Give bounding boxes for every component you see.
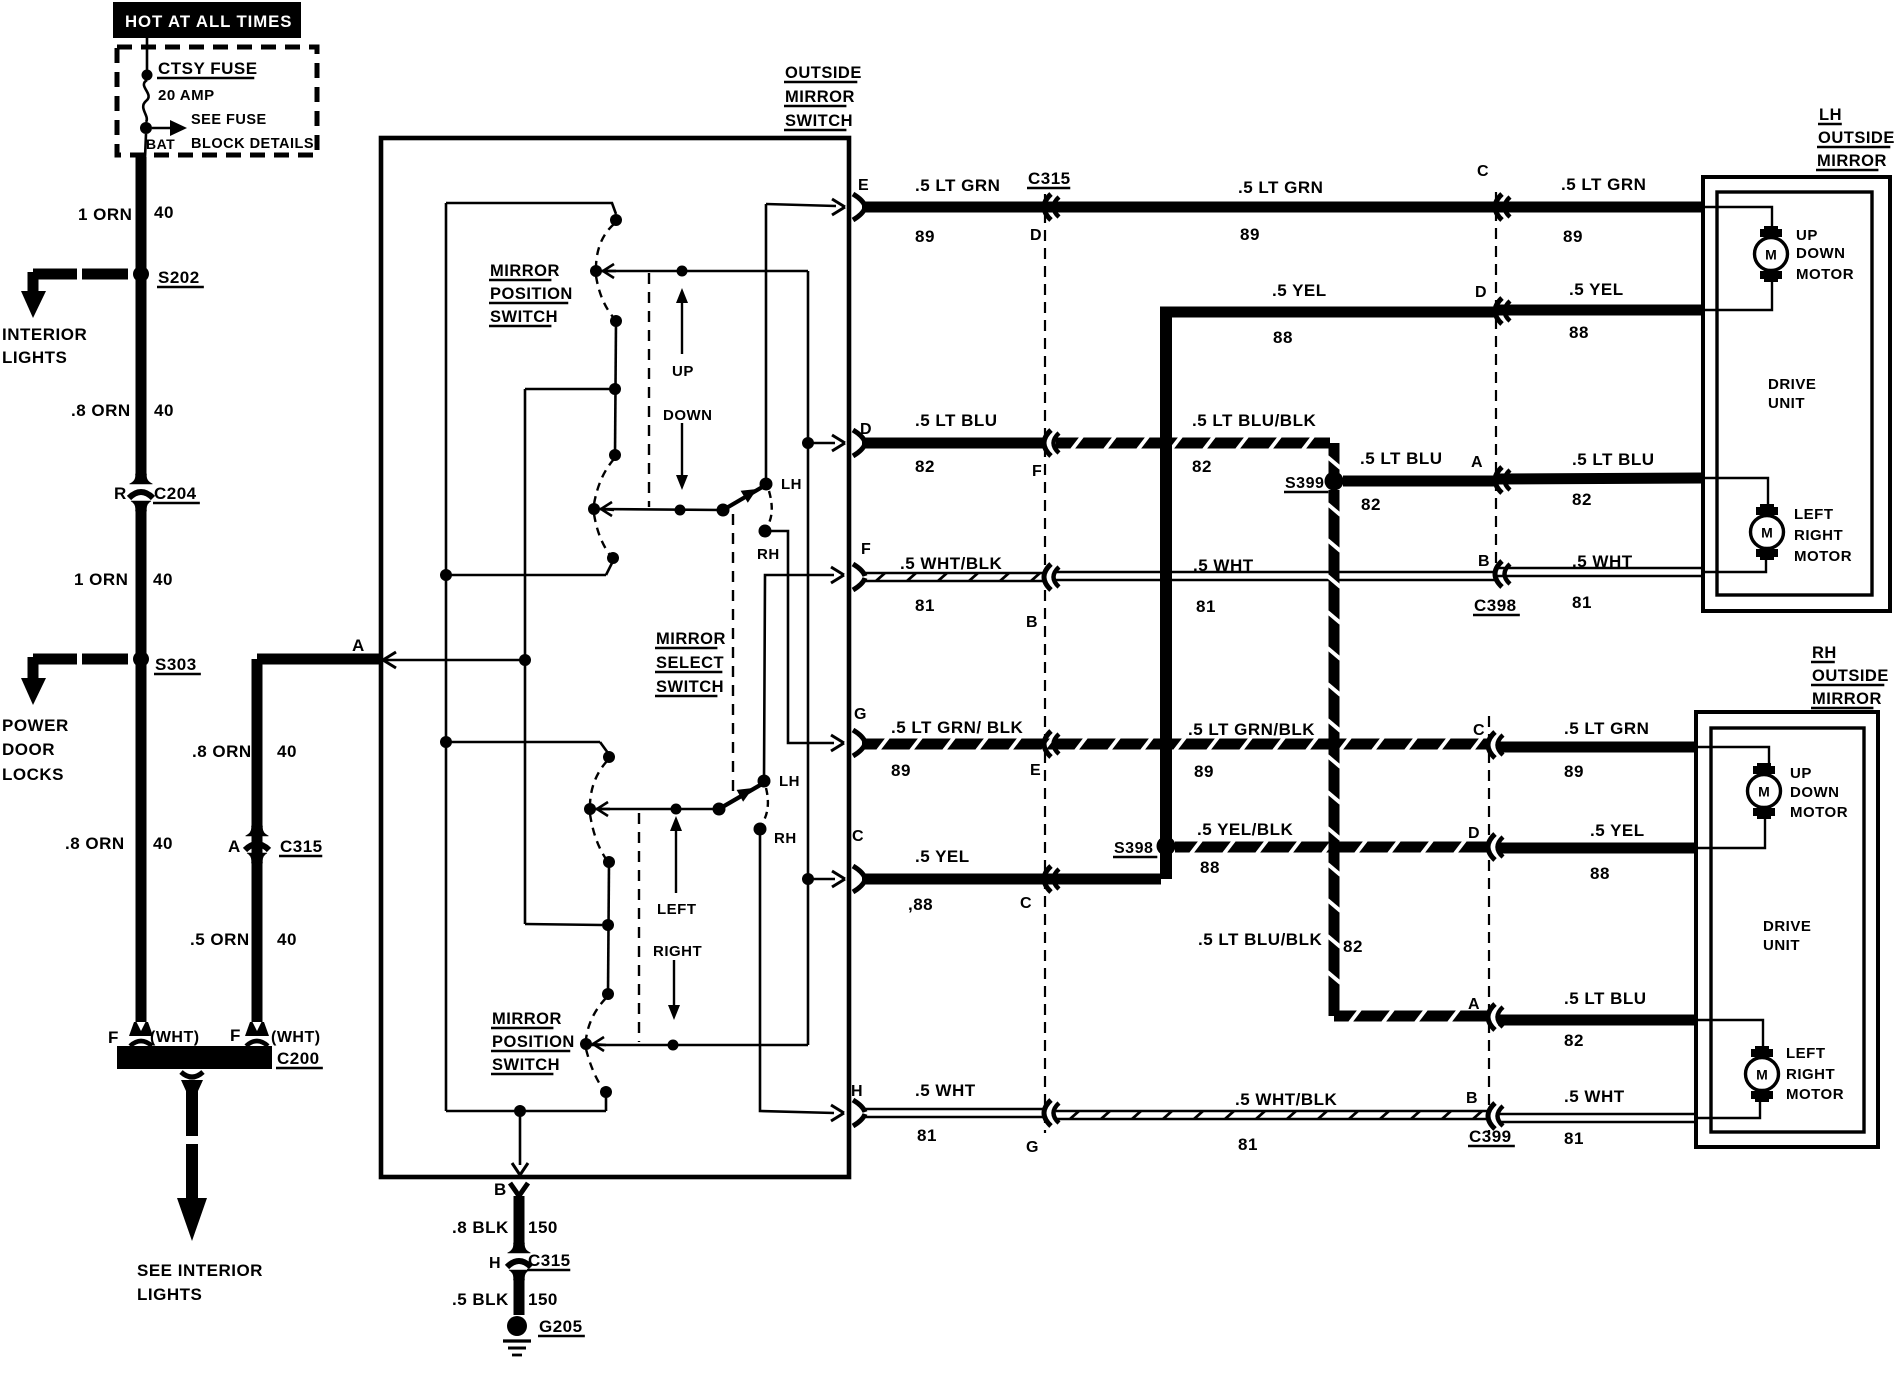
node D junction <box>802 437 814 449</box>
RH left right motor M4 <box>1751 1049 1773 1057</box>
splice S303 <box>133 651 149 667</box>
svg-text:81: 81 <box>1572 593 1592 612</box>
svg-text:B: B <box>1026 614 1038 631</box>
svg-text:(WHT): (WHT) <box>271 1029 321 1046</box>
svg-text:1 ORN: 1 ORN <box>78 205 132 224</box>
svg-text:E: E <box>858 177 869 194</box>
wire BLU to motor <box>1698 1020 1763 1047</box>
svg-text:40: 40 <box>277 742 297 761</box>
splice S398 <box>1157 837 1176 856</box>
node T2b <box>603 856 615 868</box>
svg-text:.8 BLK: .8 BLK <box>452 1218 509 1237</box>
node BAT output wire <box>145 134 146 158</box>
svg-text:C200: C200 <box>277 1049 320 1068</box>
svg-text:UP: UP <box>1790 765 1812 782</box>
svg-text:LH: LH <box>781 476 802 493</box>
svg-text:20 AMP: 20 AMP <box>158 87 215 104</box>
svg-text:SEE FUSE: SEE FUSE <box>191 112 267 128</box>
svg-text:LEFT: LEFT <box>1786 1045 1826 1062</box>
wire to contact T1 <box>446 203 616 214</box>
svg-text:(WHT): (WHT) <box>150 1029 200 1046</box>
svg-text:40: 40 <box>277 930 297 949</box>
svg-text:A: A <box>1468 996 1480 1013</box>
wire corner down to S399 <box>1329 443 1340 474</box>
svg-text:.5 LT BLU: .5 LT BLU <box>1572 450 1655 469</box>
svg-text:POWER: POWER <box>2 716 69 735</box>
svg-text:UP: UP <box>1796 227 1818 244</box>
svg-text:40: 40 <box>154 401 174 420</box>
svg-text:A: A <box>352 636 365 655</box>
LH left right motor M2 <box>1756 507 1778 515</box>
row S398 to C399 D: .5 YEL/BLK <box>1175 842 1489 853</box>
node C junction <box>802 873 814 885</box>
svg-text:81: 81 <box>1196 597 1216 616</box>
svg-text:.5 WHT/BLK: .5 WHT/BLK <box>1235 1090 1337 1109</box>
svg-text:.8 ORN: .8 ORN <box>71 401 131 420</box>
svg-text:C: C <box>852 828 864 845</box>
svg-text:MIRROR: MIRROR <box>1812 690 1882 708</box>
wiper W1 with arrow (up/down) <box>590 265 602 277</box>
node T2 <box>610 315 622 327</box>
wire WHT to motor <box>1705 559 1766 572</box>
svg-text:HOT AT ALL TIMES: HOT AT ALL TIMES <box>125 12 292 31</box>
node LH (upper) <box>760 478 773 491</box>
svg-text:.5 LT BLU: .5 LT BLU <box>1564 989 1647 1008</box>
row D: .5 LT BLU / LT BLU BLK to S399 <box>853 430 865 442</box>
svg-text:SWITCH: SWITCH <box>785 112 853 130</box>
svg-text:SWITCH: SWITCH <box>656 678 724 696</box>
wire RH lower to pin H <box>760 835 834 1113</box>
svg-text:C315: C315 <box>280 837 323 856</box>
svg-text:MOTOR: MOTOR <box>1786 1086 1844 1103</box>
svg-text:C: C <box>1477 163 1489 180</box>
svg-text:DRIVE: DRIVE <box>1763 918 1811 935</box>
svg-text:C: C <box>1473 722 1485 739</box>
svg-text:MOTOR: MOTOR <box>1796 266 1854 283</box>
wire .5 YEL top row to C398 D <box>1160 307 1496 318</box>
svg-text:.5 WHT: .5 WHT <box>1572 552 1633 571</box>
svg-text:DRIVE: DRIVE <box>1768 376 1816 393</box>
svg-text:G: G <box>854 706 867 723</box>
svg-text:LIGHTS: LIGHTS <box>137 1285 202 1304</box>
wire from header to fuse <box>146 38 149 75</box>
svg-text:81: 81 <box>1238 1135 1258 1154</box>
svg-text:C: C <box>1020 895 1032 912</box>
svg-text:.5 BLK: .5 BLK <box>452 1290 509 1309</box>
svg-text:POSITION: POSITION <box>492 1033 575 1051</box>
dashed arc LH-RH lower <box>763 788 768 822</box>
svg-text:88: 88 <box>1569 323 1589 342</box>
connector C204 pin R <box>130 474 153 484</box>
row C: .5 YEL up to C398 D and S398 <box>853 866 865 878</box>
svg-text:OUTSIDE: OUTSIDE <box>785 64 862 82</box>
svg-text:C204: C204 <box>154 484 197 503</box>
wire branch to power door locks <box>33 654 77 665</box>
svg-text:A: A <box>1471 454 1483 471</box>
svg-text:C315: C315 <box>1028 169 1071 188</box>
svg-text:89: 89 <box>1194 762 1214 781</box>
svg-text:POSITION: POSITION <box>490 285 573 303</box>
svg-text:82: 82 <box>1572 490 1592 509</box>
svg-text:SWITCH: SWITCH <box>492 1056 560 1074</box>
svg-text:.5 WHT/BLK: .5 WHT/BLK <box>900 554 1002 573</box>
svg-text:88: 88 <box>1273 328 1293 347</box>
svg-text:C398: C398 <box>1474 596 1517 615</box>
svg-text:40: 40 <box>153 570 173 589</box>
svg-text:UNIT: UNIT <box>1768 395 1805 412</box>
wire WHT to motor <box>1698 1101 1760 1118</box>
wiper W1b (left/right) <box>584 803 596 815</box>
svg-text:B: B <box>494 1180 507 1199</box>
connector C399 dashed column <box>1488 716 1490 1133</box>
svg-text:DOOR: DOOR <box>2 740 55 759</box>
svg-text:.5 YEL: .5 YEL <box>1569 280 1624 299</box>
wire to pin B with arrow <box>514 1105 526 1117</box>
node RH (lower) <box>754 823 767 836</box>
svg-text:.5 YEL: .5 YEL <box>1272 281 1327 300</box>
connector C200 terminals F (WHT) <box>129 1022 153 1036</box>
svg-text:81: 81 <box>917 1126 937 1145</box>
wire branch to interior lights <box>33 269 77 280</box>
svg-text:.5 WHT: .5 WHT <box>915 1081 976 1100</box>
row E: .5 LT GRN 89 to LH mirror <box>853 194 865 206</box>
svg-text:RH: RH <box>757 546 780 563</box>
wire to contact T1b <box>440 736 452 748</box>
splice S399 <box>1325 472 1344 491</box>
row A to C399: .5 LT BLU <box>1334 1011 1489 1022</box>
svg-text:F: F <box>1032 463 1042 480</box>
RH up down motor M3 <box>1753 766 1775 774</box>
svg-text:.5 WHT: .5 WHT <box>1193 556 1254 575</box>
svg-text:M: M <box>1765 247 1777 263</box>
wire YEL to motor <box>1705 281 1772 310</box>
svg-text:40: 40 <box>153 834 173 853</box>
row H: .5 WHT / .5 WHT/BLK <box>853 1100 865 1112</box>
svg-text:150: 150 <box>528 1290 558 1309</box>
svg-text:SWITCH: SWITCH <box>490 308 558 326</box>
svg-text:B: B <box>1466 1090 1478 1107</box>
svg-text:.5 YEL: .5 YEL <box>915 847 970 866</box>
svg-text:D: D <box>1468 825 1480 842</box>
svg-text:,88: ,88 <box>908 895 933 914</box>
LEFT arrow <box>675 828 677 893</box>
node LH (lower) <box>758 775 771 788</box>
dashed contact arcs lower switch <box>590 761 607 804</box>
wiper W2 (up/down lower) <box>588 503 600 515</box>
svg-text:UP: UP <box>672 363 694 380</box>
svg-text:89: 89 <box>1564 762 1584 781</box>
svg-text:82: 82 <box>915 457 935 476</box>
node T5 <box>607 552 619 564</box>
svg-text:.5 LT BLU/BLK: .5 LT BLU/BLK <box>1198 930 1322 949</box>
svg-text:150: 150 <box>528 1218 558 1237</box>
svg-text:F: F <box>230 1026 241 1045</box>
svg-text:.8 ORN: .8 ORN <box>65 834 125 853</box>
svg-text:.8 ORN: .8 ORN <box>192 742 252 761</box>
svg-text:.5 LT GRN/ BLK: .5 LT GRN/ BLK <box>891 718 1024 737</box>
svg-text:.5 YEL/BLK: .5 YEL/BLK <box>1197 820 1294 839</box>
svg-text:88: 88 <box>1200 858 1220 877</box>
select switch arm (lower) <box>713 803 726 816</box>
node T1 <box>610 214 622 226</box>
wire 1 ORN 40 (fuse to S202) <box>136 157 147 270</box>
svg-text:S202: S202 <box>158 268 200 287</box>
node T4b <box>602 988 614 1000</box>
svg-text:89: 89 <box>1240 225 1260 244</box>
svg-text:89: 89 <box>1563 227 1583 246</box>
svg-text:MOTOR: MOTOR <box>1790 804 1848 821</box>
node T4 <box>609 449 621 461</box>
node T5b <box>600 1086 612 1098</box>
svg-text:.5 LT BLU: .5 LT BLU <box>1360 449 1443 468</box>
power feed: HOT AT ALL TIMES header <box>113 2 301 38</box>
svg-text:D: D <box>1030 227 1042 244</box>
svg-text:LH: LH <box>1819 106 1842 124</box>
svg-text:UNIT: UNIT <box>1763 937 1800 954</box>
svg-text:H: H <box>489 1255 501 1272</box>
svg-text:S399: S399 <box>1285 475 1324 492</box>
svg-text:LOCKS: LOCKS <box>2 765 64 784</box>
svg-text:.5 LT GRN: .5 LT GRN <box>1564 719 1649 738</box>
connector C315 pin A <box>246 826 269 836</box>
svg-text:.5 LT GRN: .5 LT GRN <box>1561 175 1646 194</box>
wire GRN to motor <box>1698 747 1769 765</box>
wire A feed: switch pin A to C315 to C200 <box>257 654 380 665</box>
svg-text:.5 LT BLU/BLK: .5 LT BLU/BLK <box>1192 411 1316 430</box>
RIGHT arrow <box>673 960 675 1008</box>
svg-text:DOWN: DOWN <box>1796 245 1846 262</box>
svg-text:MIRROR: MIRROR <box>785 88 855 106</box>
connector C398 dashed column <box>1495 192 1497 588</box>
LH up down motor U1 <box>1760 229 1782 237</box>
wire .8 ORN 40 (S202 to C204) <box>136 278 147 480</box>
wire BLU to motor <box>1705 478 1768 505</box>
wire lower LH to pin F <box>764 575 834 781</box>
svg-text:RIGHT: RIGHT <box>653 943 702 960</box>
wire .8 ORN 40 (S303 to C200 F) <box>136 663 147 1024</box>
svg-text:DOWN: DOWN <box>663 407 713 424</box>
svg-text:LH: LH <box>779 773 800 790</box>
wire W1 down to pins D and C <box>807 271 810 1045</box>
svg-text:G: G <box>1026 1139 1039 1156</box>
svg-text:F: F <box>108 1028 119 1047</box>
svg-text:DOWN: DOWN <box>1790 784 1840 801</box>
svg-text:S303: S303 <box>155 655 197 674</box>
svg-text:81: 81 <box>915 596 935 615</box>
svg-text:.5 LT GRN/BLK: .5 LT GRN/BLK <box>1188 720 1315 739</box>
svg-text:RH: RH <box>1812 644 1837 662</box>
svg-text:.5 LT GRN: .5 LT GRN <box>915 176 1000 195</box>
svg-text:M: M <box>1756 1067 1768 1083</box>
fuse CTSY FUSE 20 AMP <box>142 70 153 81</box>
wire S399 down leg .5 LT BLU/BLK 82 <box>1329 490 1340 1016</box>
svg-text:88: 88 <box>1590 864 1610 883</box>
dashed arc LH-RH upper <box>768 491 772 525</box>
svg-text:.5 LT BLU: .5 LT BLU <box>915 411 998 430</box>
svg-text:MIRROR: MIRROR <box>1817 152 1887 170</box>
wire YEL riser <box>1160 312 1172 879</box>
node T3 <box>609 383 621 395</box>
svg-text:S398: S398 <box>1114 840 1153 857</box>
svg-text:.5 WHT: .5 WHT <box>1564 1087 1625 1106</box>
svg-text:82: 82 <box>1343 937 1363 956</box>
svg-text:LEFT: LEFT <box>657 901 697 918</box>
node T3b <box>602 919 614 931</box>
svg-text:R: R <box>114 484 127 503</box>
svg-text:SEE INTERIOR: SEE INTERIOR <box>137 1261 263 1280</box>
outside mirror switch box <box>381 138 849 1177</box>
wire .5 BLK 150 <box>514 1273 525 1315</box>
row G: .5 LT GRN/BLK to RH mirror <box>853 730 865 742</box>
svg-text:LIGHTS: LIGHTS <box>2 348 67 367</box>
svg-text:OUTSIDE: OUTSIDE <box>1818 129 1894 147</box>
svg-text:81: 81 <box>1564 1129 1584 1148</box>
svg-text:B: B <box>1478 553 1490 570</box>
dashed contact arcs upper switch <box>596 224 614 266</box>
svg-text:CTSY FUSE: CTSY FUSE <box>158 59 258 78</box>
svg-text:F: F <box>861 541 871 558</box>
splice S202 <box>133 266 149 282</box>
wire RH to pin G <box>771 531 834 743</box>
svg-text:C399: C399 <box>1469 1127 1512 1146</box>
svg-text:A: A <box>228 837 241 856</box>
svg-text:1 ORN: 1 ORN <box>74 570 128 589</box>
svg-text:H: H <box>851 1083 863 1100</box>
svg-text:MIRROR: MIRROR <box>492 1010 562 1028</box>
wire to lower wiper W2b <box>586 1044 808 1047</box>
svg-text:82: 82 <box>1192 457 1212 476</box>
svg-text:RIGHT: RIGHT <box>1786 1066 1835 1083</box>
arrow SEE FUSE BLOCK DETAILS <box>152 127 172 130</box>
wire E to motor <box>1705 207 1772 228</box>
select switch arm (upper) <box>717 504 730 517</box>
ground/common bus: left edge of inner structure <box>445 203 448 1111</box>
node T1b <box>603 751 615 763</box>
wire LH up to pin E <box>765 204 768 484</box>
wire 1 ORN 40 (C204 to S303) <box>136 504 147 655</box>
svg-text:G205: G205 <box>539 1317 583 1336</box>
wire .5 LT BLU from S399 to C398 A <box>1343 476 1496 487</box>
svg-text:M: M <box>1758 784 1770 800</box>
svg-text:MIRROR: MIRROR <box>656 630 726 648</box>
svg-text:RIGHT: RIGHT <box>1794 527 1843 544</box>
svg-text:SELECT: SELECT <box>656 654 724 672</box>
connector C315 pin H (ground leg) <box>508 1243 531 1253</box>
wire .8 BLK 150 <box>514 1196 525 1248</box>
svg-text:82: 82 <box>1564 1031 1584 1050</box>
svg-text:89: 89 <box>915 227 935 246</box>
svg-text:MOTOR: MOTOR <box>1794 548 1852 565</box>
svg-text:RH: RH <box>774 830 797 847</box>
pin B connector below box <box>510 1183 519 1196</box>
mechanical link dashed lines <box>648 273 650 507</box>
UP arrow <box>681 300 683 354</box>
svg-text:40: 40 <box>154 203 174 222</box>
svg-text:.5 YEL: .5 YEL <box>1590 821 1645 840</box>
svg-text:89: 89 <box>891 761 911 780</box>
svg-text:INTERIOR: INTERIOR <box>2 325 87 344</box>
wiper W2b dot <box>580 1038 592 1050</box>
svg-text:MIRROR: MIRROR <box>490 262 560 280</box>
svg-text:.5 ORN: .5 ORN <box>190 930 250 949</box>
wire pin A feed line <box>383 652 396 660</box>
ground G205 <box>507 1316 527 1336</box>
upper position switch contact column <box>615 321 616 455</box>
svg-text:LEFT: LEFT <box>1794 506 1834 523</box>
wire to contact T5 <box>440 569 452 581</box>
svg-text:C315: C315 <box>528 1251 571 1270</box>
connector C200 body <box>117 1046 272 1069</box>
wire bottom bus to T5b <box>446 1110 606 1113</box>
wire below C200 to interior lights <box>181 1072 203 1077</box>
row F: .5 WHT/BLK -> .5 WHT <box>853 564 865 576</box>
fuse block dashed boundary <box>117 47 317 155</box>
lower position switch contact column <box>608 862 609 994</box>
svg-text:.5 LT GRN: .5 LT GRN <box>1238 178 1323 197</box>
svg-text:D: D <box>1475 284 1487 301</box>
svg-text:E: E <box>1030 762 1041 779</box>
svg-text:BLOCK DETAILS: BLOCK DETAILS <box>191 136 314 152</box>
svg-text:M: M <box>1761 525 1773 541</box>
DOWN arrow <box>681 423 683 478</box>
wire YEL to motor <box>1698 818 1765 848</box>
node RH (upper) <box>759 525 772 538</box>
connector C315 dashed column <box>1044 194 1046 1133</box>
svg-text:82: 82 <box>1361 495 1381 514</box>
svg-text:BAT: BAT <box>146 136 175 152</box>
svg-text:OUTSIDE: OUTSIDE <box>1812 667 1889 685</box>
